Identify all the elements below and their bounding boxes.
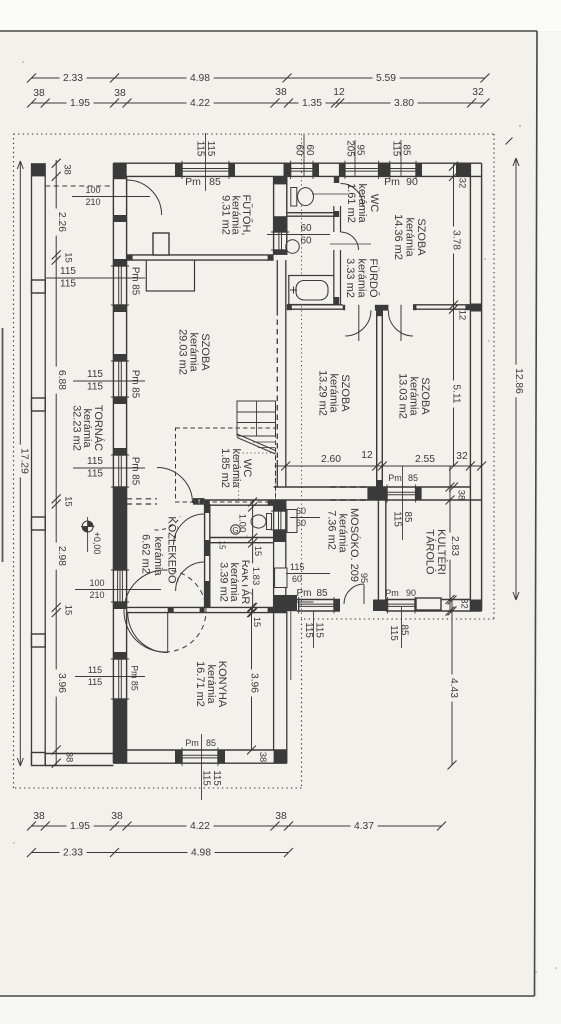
labels 115/85 kulteri (388, 625, 410, 642)
svg-text:115: 115 (201, 770, 212, 786)
szoba29-kozlekedo wall (127, 499, 205, 504)
west wall jamb w5a (113, 215, 126, 266)
dim 4.22 bottom (187, 821, 214, 832)
door to szoba1303 (388, 305, 413, 341)
lower right chain ticks (446, 483, 455, 616)
page right margin (538, 32, 561, 1024)
svg-text:85: 85 (399, 625, 410, 636)
label Pm85 konyha w (130, 665, 140, 691)
svg-text:FÜRDŐ: FÜRDŐ (367, 258, 381, 298)
label raktar (218, 560, 253, 605)
svg-text:60: 60 (296, 518, 306, 528)
futoh bottom wall (127, 255, 274, 260)
dim row B ticks (27, 99, 490, 108)
dim 4.98 bottom (188, 847, 215, 858)
svg-text:115: 115 (87, 369, 103, 380)
gas meter (231, 525, 241, 535)
section line (301, 134, 303, 619)
west wall jamb w6b (113, 397, 126, 404)
svg-text:5.59: 5.59 (376, 73, 396, 84)
svg-text:2.33: 2.33 (63, 73, 83, 84)
svg-text:60: 60 (292, 574, 302, 584)
dim row A ticks (27, 74, 490, 83)
svg-text:12: 12 (333, 87, 345, 98)
labels 60/60 mosoko (290, 506, 320, 528)
dim 15 L3 (63, 605, 74, 616)
konyha NE pier (274, 595, 297, 611)
futoh right wall (274, 176, 287, 255)
page frame top edge (0, 30, 537, 32)
svg-text:Pm: Pm (385, 588, 399, 598)
svg-text:115: 115 (87, 382, 103, 393)
west wall jamb w7b (113, 487, 126, 494)
window 95/205 szoba1436 a (345, 161, 379, 179)
tornac post 5 (32, 634, 46, 647)
svg-text:3.80: 3.80 (394, 98, 414, 109)
top wall jamb b (229, 163, 235, 176)
window 115/115 mosoko s (299, 597, 334, 614)
svg-text:2.60: 2.60 (321, 454, 341, 465)
page left scan edge (2, 328, 4, 562)
svg-text:Pm: Pm (384, 176, 400, 188)
dim 15 konyha (252, 617, 262, 627)
stair lower treads (253, 442, 276, 448)
mosoko door arc (344, 584, 364, 604)
south wall SE corner (274, 750, 287, 763)
dim 1.35 top (299, 98, 326, 109)
top wall jamb d (313, 163, 319, 176)
window 85/115 szoba1436 b (390, 161, 416, 179)
window 115/115 futoh (182, 161, 229, 179)
dim 32 R2 (459, 598, 470, 609)
labels 115/115 mosoko s (303, 611, 325, 648)
svg-text:32: 32 (456, 451, 468, 462)
label Pm90 top (384, 176, 418, 188)
label futoh (220, 195, 255, 236)
svg-text:12.86: 12.86 (513, 368, 524, 394)
dim row A line (32, 77, 486, 79)
wc right wall (334, 176, 341, 304)
svg-text:38: 38 (275, 87, 287, 98)
svg-text:3.96: 3.96 (249, 673, 260, 693)
dim 3.96 left (54, 670, 68, 697)
label Pm85 top (185, 176, 221, 188)
svg-text:13.03 m2: 13.03 m2 (397, 373, 409, 419)
dim 17.29 line (17, 161, 23, 766)
svg-text:5.11: 5.11 (451, 384, 462, 404)
understair wc dashed outline (176, 428, 276, 502)
svg-text:115: 115 (211, 770, 222, 786)
svg-text:32: 32 (472, 87, 484, 98)
wc-furdo divider wall (287, 213, 334, 217)
page bottom margin (0, 997, 561, 1024)
raktar dim line (248, 498, 257, 618)
label 95 mosoko door (359, 573, 369, 583)
svg-text:1.35: 1.35 (302, 98, 322, 109)
svg-text:85: 85 (206, 738, 216, 748)
kulteri door rect (416, 598, 441, 610)
dim 38 konyha s (258, 752, 268, 762)
furdo bottom wall (287, 305, 471, 311)
raktar door arc (176, 562, 205, 591)
svg-text:115: 115 (391, 141, 402, 157)
svg-text:115: 115 (205, 141, 216, 157)
wcmid-raktar divider (210, 538, 274, 543)
left chain line (55, 160, 57, 766)
south wall jamb a (175, 750, 182, 763)
svg-text:85: 85 (316, 588, 328, 599)
east wall faces (470, 163, 481, 611)
label 1.00 wcmid (237, 514, 248, 533)
west wall pier entrance a (113, 493, 126, 570)
svg-text:Pm: Pm (185, 738, 199, 748)
svg-text:15: 15 (63, 605, 74, 616)
stair cut line (237, 434, 276, 454)
labels 115/115 west win3 (73, 456, 145, 480)
label Pm85 west win3 (130, 457, 141, 486)
dim row C line (32, 825, 442, 827)
dim 4.43 label (445, 675, 459, 702)
dim 4.98 top (187, 73, 214, 84)
page frame bottom edge (0, 995, 535, 997)
label Pm85 sz1303 (388, 466, 418, 540)
label szoba 29.03 (177, 329, 212, 375)
svg-text:1.61 m2: 1.61 m2 (345, 183, 357, 223)
svg-text:17.29: 17.29 (19, 448, 30, 474)
svg-text:29.03 m2: 29.03 m2 (177, 329, 189, 375)
toilet wc mid (251, 514, 272, 530)
tornac post 2 (32, 280, 46, 293)
svg-text:38: 38 (258, 752, 268, 762)
svg-text:9.31 m2: 9.31 m2 (220, 195, 232, 235)
dim row D ticks (27, 848, 293, 857)
top wall jamb a (175, 163, 182, 176)
dim 2.26 (54, 209, 68, 236)
svg-text:Pm 85: Pm 85 (130, 665, 140, 691)
dim 3.78 (448, 227, 462, 254)
svg-text:15: 15 (63, 496, 74, 507)
svg-text:+0,00: +0,00 (92, 532, 102, 555)
dim 6.88 (54, 367, 68, 394)
tornac post 3 (32, 398, 46, 411)
svg-text:12: 12 (361, 450, 373, 461)
svg-text:115: 115 (303, 622, 314, 638)
svg-text:32: 32 (457, 178, 468, 189)
svg-text:15: 15 (252, 617, 262, 627)
konyha door arc (128, 613, 168, 653)
mosoko south wall (297, 600, 340, 612)
washbasin furdo (286, 239, 300, 254)
dim 1.95 top (67, 98, 94, 109)
label Pm85 konyha s (185, 734, 216, 800)
dim 32 mid (456, 451, 468, 462)
svg-text:kerámia: kerámia (356, 258, 368, 298)
window 115/115 konyha s (182, 748, 218, 766)
dim 38 R (456, 490, 467, 501)
svg-text:2.98: 2.98 (56, 546, 67, 566)
entrance door window 100/210 (111, 570, 129, 602)
dim 2.98 (54, 543, 68, 570)
svg-text:32: 32 (459, 598, 470, 609)
svg-text:1.95: 1.95 (70, 98, 90, 109)
svg-text:1.85 m2: 1.85 m2 (219, 448, 231, 488)
entrance swing arc dashed (165, 570, 206, 652)
svg-text:WC: WC (368, 194, 380, 212)
label Pm85 west win2 (130, 370, 141, 399)
dim 38 bC2 (111, 811, 123, 822)
dim row C ticks (27, 822, 446, 831)
dim 12 mid (361, 450, 373, 461)
dim 15 L2 (63, 496, 74, 507)
labels 100/210 entrance (75, 578, 161, 600)
svg-text:85: 85 (401, 145, 412, 156)
svg-text:85: 85 (408, 473, 418, 483)
label kozlekedo (140, 516, 180, 584)
labels 60/60 wc win (294, 135, 316, 176)
labels 115/85 win (391, 140, 412, 176)
svg-text:38: 38 (33, 88, 45, 99)
svg-text:6.62 m2: 6.62 m2 (140, 534, 152, 574)
svg-text:4.98: 4.98 (191, 848, 211, 859)
top wall jamb g (416, 163, 422, 176)
szoba wing bottom pier (367, 487, 385, 500)
svg-text:kerámia: kerámia (404, 217, 416, 257)
tornac post top (32, 163, 46, 176)
svg-text:115: 115 (87, 456, 103, 467)
svg-text:KÜLTÉRI: KÜLTÉRI (435, 529, 448, 575)
svg-text:60: 60 (304, 145, 315, 156)
kozlekedo east wall (205, 504, 210, 607)
label konyha (194, 661, 228, 708)
futoh win leader (205, 176, 207, 190)
label 1.83 raktar (248, 563, 261, 588)
dim 32 tB (472, 87, 484, 98)
dim 12.86 label (510, 365, 524, 398)
svg-text:32.23 m2: 32.23 m2 (71, 405, 83, 451)
svg-text:4.37: 4.37 (354, 821, 374, 832)
label szoba 14.36 (392, 214, 427, 260)
svg-text:Pm 85: Pm 85 (130, 267, 141, 296)
dim chain 2.60 line (275, 465, 482, 467)
tornac edge beam lines (32, 163, 46, 765)
svg-text:4.22: 4.22 (190, 821, 210, 832)
dim 3.96 konyha label (246, 670, 260, 697)
window 60/60 futoh-furdo (271, 232, 289, 250)
svg-text:6.88: 6.88 (56, 370, 67, 390)
svg-text:95: 95 (359, 573, 369, 583)
svg-text:14.36 m2: 14.36 m2 (392, 214, 404, 260)
dim 38 tB2 (114, 88, 126, 99)
page top strip (0, 0, 561, 31)
page frame right edge (535, 31, 538, 996)
label Pm85 west win1 (130, 267, 141, 296)
dim 12 tB (333, 87, 345, 98)
tornac south wall (45, 754, 113, 766)
szoba wing bottom wall (274, 487, 482, 500)
stair center line (256, 401, 258, 436)
wc label leader (312, 193, 348, 195)
entrance swing arc solid (124, 570, 165, 652)
dim 4.22 top (187, 98, 214, 109)
svg-text:95: 95 (355, 145, 366, 156)
label furdo (344, 258, 381, 298)
konyha east wall (274, 611, 291, 763)
svg-text:SZOBA: SZOBA (199, 333, 211, 371)
window 115/115 szoba29 n1 (111, 266, 129, 305)
top wall jamb c (284, 163, 291, 176)
svg-text:2.33: 2.33 (63, 848, 83, 859)
labels 115/60 raktar door (286, 562, 330, 584)
svg-text:90: 90 (406, 588, 416, 598)
svg-text:100: 100 (89, 578, 104, 588)
wcmid top wall (205, 500, 274, 505)
svg-text:2.26: 2.26 (56, 212, 67, 232)
window 60/60 wcmid-mosoko (271, 511, 288, 530)
dim 15 L1 (63, 252, 74, 263)
south wall SW corner (113, 750, 127, 763)
svg-text:38: 38 (64, 752, 75, 763)
svg-text:15: 15 (63, 252, 74, 263)
window 115/115 szoba29 n3 (111, 455, 129, 487)
window Pm85 szoba1303 s (387, 485, 416, 503)
svg-text:2.83: 2.83 (449, 536, 460, 556)
top wall pier f (379, 163, 390, 176)
labels 115/115 futoh win (195, 133, 217, 191)
svg-text:Pm: Pm (185, 176, 201, 188)
svg-text:4.98: 4.98 (190, 73, 210, 84)
svg-text:210: 210 (85, 197, 100, 207)
west wall jamb entrance b (113, 602, 126, 609)
east wall junction pier (470, 304, 481, 312)
szoba29 door arc (155, 468, 193, 531)
svg-text:3.78: 3.78 (451, 230, 462, 250)
dim chain 2.60 ticks (281, 462, 486, 471)
svg-text:115: 115 (195, 141, 206, 157)
labels 115/115 konyha s (201, 770, 223, 786)
svg-text:210: 210 (89, 590, 104, 600)
labels 115/115 west win1 (46, 266, 145, 290)
svg-text:3.39 m2: 3.39 m2 (218, 562, 230, 602)
svg-text:38: 38 (114, 88, 126, 99)
svg-text:7.36 m2: 7.36 m2 (326, 510, 338, 550)
west wall pier below konyha window (113, 699, 126, 750)
mosoko sink (287, 510, 297, 533)
labels 60/60 furdo (267, 223, 371, 247)
dim 38 L1 (62, 164, 73, 175)
dim 5.11 (448, 381, 462, 408)
svg-text:12: 12 (457, 310, 468, 321)
futoh door arc (127, 180, 162, 215)
svg-text:1.83: 1.83 (250, 567, 261, 586)
kulteri west wall (378, 500, 385, 611)
top wall jamb e (339, 163, 345, 176)
south wall faces (113, 750, 286, 763)
svg-text:115: 115 (314, 622, 325, 638)
west wall jamb w8a (113, 652, 126, 659)
label szoba 13.29 (317, 370, 352, 416)
labels 205/95 win (345, 140, 366, 176)
stair box (237, 401, 276, 436)
svg-text:1.95: 1.95 (70, 821, 90, 832)
svg-text:Pm: Pm (297, 588, 312, 599)
top wall pier NW corner (113, 163, 126, 179)
svg-text:60: 60 (294, 145, 305, 156)
svg-text:4.22: 4.22 (190, 98, 210, 109)
dim 4.37 bottom (351, 821, 378, 832)
left chain ticks (52, 159, 61, 768)
south wall jamb b (218, 750, 225, 763)
dim 12.86 line (513, 158, 519, 600)
dim 2.55 (412, 454, 439, 465)
svg-text:60: 60 (300, 223, 312, 234)
middle-east wall (274, 500, 286, 613)
dim 3.80 top (391, 98, 418, 109)
label wc top (345, 183, 380, 223)
svg-text:15: 15 (253, 546, 263, 556)
svg-text:115: 115 (88, 677, 102, 687)
top right small tick (506, 138, 513, 145)
svg-text:115: 115 (290, 562, 304, 572)
label mosoko (326, 508, 362, 582)
dim 2.33 bottom (60, 847, 87, 858)
label Pm85 mosoko s (293, 588, 328, 602)
szoba bottom jamb (381, 487, 422, 500)
svg-text:15: 15 (218, 541, 227, 550)
dim 1.95 bottom (67, 821, 94, 832)
label 15 wcmid (253, 546, 263, 556)
dim 38 L2 (64, 752, 75, 763)
kulteri south wall (386, 600, 482, 612)
svg-text:38: 38 (62, 164, 73, 175)
tornac post 4 (32, 517, 46, 530)
door to szoba1329 (345, 305, 371, 341)
svg-text:90: 90 (406, 176, 418, 188)
szoba29 stove (146, 260, 194, 291)
window 60/60 wc top (291, 161, 313, 179)
tornac post bottom (32, 753, 46, 766)
svg-text:Pm 85: Pm 85 (130, 370, 141, 399)
window 115/115 konyha w (111, 659, 129, 699)
right chain line (453, 164, 455, 466)
svg-text:Pm 85: Pm 85 (130, 457, 141, 486)
svg-text:Pm: Pm (388, 473, 402, 483)
svg-text:115: 115 (388, 625, 399, 641)
svg-text:2.55: 2.55 (415, 454, 435, 465)
labels 115/115 west win2 (73, 369, 145, 393)
svg-text:38: 38 (111, 811, 123, 822)
labels 115/115 konyha w win (75, 665, 145, 687)
svg-text:85: 85 (402, 512, 413, 523)
window Pm90 kulteri s (388, 597, 416, 614)
eaves dotted outline (14, 134, 495, 788)
west wall jamb w7a (113, 448, 126, 455)
svg-text:115: 115 (87, 469, 103, 480)
svg-text:13.29 m2: 13.29 m2 (317, 370, 329, 416)
label szoba 13.03 (397, 373, 432, 419)
label Pm90 kulteri (385, 588, 416, 648)
toilet wc top (291, 188, 314, 207)
wcmid door arc (174, 514, 205, 545)
svg-text:115: 115 (392, 511, 403, 527)
raktar east opening (275, 568, 287, 588)
labels 100/210 futoh door (72, 185, 150, 207)
west wall jamb w6a (113, 354, 126, 361)
svg-text:MOSÓKO. 209: MOSÓKO. 209 (348, 508, 361, 582)
label kulteri (424, 529, 449, 575)
dim row B line (32, 102, 486, 104)
svg-text:1.00: 1.00 (237, 514, 248, 533)
west wall jamb w5b (113, 305, 126, 312)
